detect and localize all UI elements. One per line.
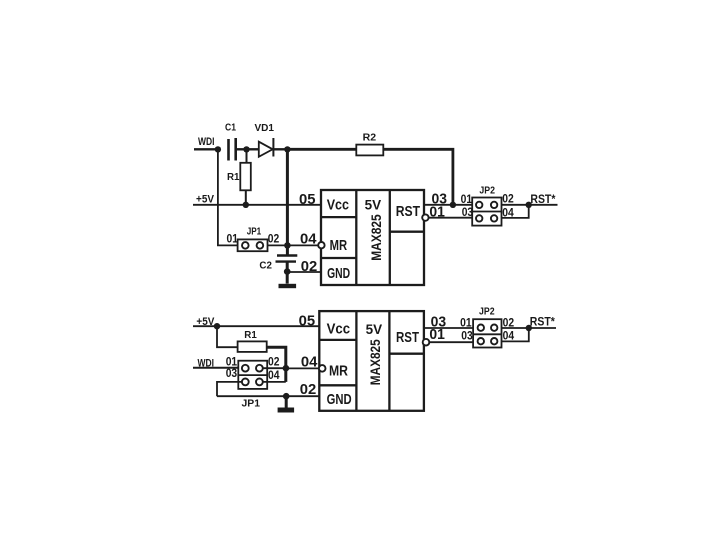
pin MR circle (lower IC) bbox=[319, 365, 326, 372]
junction C2 bottom / GND node bbox=[284, 268, 291, 275]
svg-text:C2: C2 bbox=[259, 261, 272, 272]
diode VD1 bbox=[259, 142, 273, 157]
svg-text:01: 01 bbox=[460, 316, 472, 330]
pin 2 of JP2 (lower) bbox=[491, 325, 497, 331]
junction VD1 cathode / MR branch bbox=[284, 146, 290, 152]
svg-text:Vcc: Vcc bbox=[327, 321, 351, 338]
svg-text:C1: C1 bbox=[225, 123, 236, 134]
pin 2 of JP1 (upper) bbox=[257, 242, 264, 249]
wire JP2 pin2 to RST* output (lower) bbox=[502, 327, 557, 329]
svg-text:RST: RST bbox=[396, 329, 419, 346]
junction GND node (lower) bbox=[283, 393, 290, 400]
junction R2 branch on 03 rail bbox=[450, 202, 456, 208]
connector JP1 (upper, 2-pin header) bbox=[238, 239, 268, 251]
wire JP1 pin3 to ground rail (lower) bbox=[217, 382, 242, 396]
wire MR node to MR pin bbox=[287, 244, 318, 246]
pin 4 of JP2 (lower) bbox=[491, 338, 497, 344]
op-amp U2 MAX825 (lower IC body) bbox=[319, 311, 424, 411]
wire R1 right lead down to MR node (lower) bbox=[267, 347, 286, 382]
svg-text:GND: GND bbox=[327, 265, 350, 282]
svg-text:MR: MR bbox=[329, 362, 348, 379]
capacitor C2 bbox=[286, 245, 289, 255]
svg-text:MAX825: MAX825 bbox=[369, 214, 384, 261]
svg-text:JP1: JP1 bbox=[247, 226, 262, 237]
svg-text:05: 05 bbox=[299, 313, 316, 329]
svg-text:R1: R1 bbox=[244, 330, 257, 341]
junction R1 bottom on +5V rail bbox=[243, 202, 249, 208]
svg-text:04: 04 bbox=[300, 231, 317, 247]
wire R2 to right corner down to RST 03 rail bbox=[383, 149, 453, 205]
pin 4 of JP2 (upper) bbox=[491, 215, 497, 221]
wire MR node to MR pin (lower) bbox=[286, 367, 319, 369]
svg-text:MR: MR bbox=[330, 237, 348, 254]
capacitor C1 bbox=[227, 139, 230, 161]
resistor R1 (upper, vertical) bbox=[246, 149, 248, 163]
wire JP2 pin4 up to RST* rail (upper) bbox=[502, 205, 529, 218]
svg-text:MAX825: MAX825 bbox=[368, 339, 383, 385]
connector JP2 (lower, 4-pin header) bbox=[473, 319, 501, 347]
wire RST pin to JP2 pin3 (lower) bbox=[429, 341, 473, 343]
wire RST 03 rail from IC to JP2 (lower) bbox=[424, 327, 473, 329]
pin RST circle (lower IC) bbox=[423, 339, 430, 346]
svg-text:05: 05 bbox=[299, 192, 316, 208]
wire JP1 pin2 to MR node (lower) bbox=[263, 367, 286, 369]
svg-text:Vcc: Vcc bbox=[327, 196, 349, 213]
svg-text:01: 01 bbox=[461, 192, 473, 206]
svg-text:02: 02 bbox=[502, 192, 514, 206]
svg-text:5V: 5V bbox=[365, 197, 382, 213]
svg-text:04: 04 bbox=[268, 368, 280, 382]
pin 3 of JP1 (lower) bbox=[242, 379, 249, 386]
junction RST* output (upper) bbox=[526, 202, 532, 208]
wire RST 03 rail from IC to JP2 (upper) bbox=[424, 204, 472, 206]
pin 2 of JP2 (upper) bbox=[491, 202, 497, 208]
svg-text:02: 02 bbox=[268, 232, 280, 246]
svg-text:03: 03 bbox=[226, 366, 238, 380]
pin 3 of JP2 (upper) bbox=[476, 215, 482, 221]
connector JP2 (upper, 4-pin header) bbox=[472, 198, 501, 226]
pin 1 of JP2 (upper) bbox=[476, 202, 482, 208]
wire JP2 pin4 up to RST* rail (lower) bbox=[502, 328, 529, 341]
svg-text:GND: GND bbox=[327, 391, 352, 408]
junction MR node (lower) bbox=[283, 365, 290, 372]
pin 1 of JP1 (lower) bbox=[242, 365, 249, 372]
svg-text:WDI: WDI bbox=[198, 136, 215, 148]
connector JP1 (lower, 4-pin header) bbox=[238, 361, 267, 389]
svg-text:JP2: JP2 bbox=[479, 306, 495, 317]
wire WDI input stub bbox=[194, 148, 218, 150]
wire ground rail to GND pin (lower) bbox=[217, 395, 319, 397]
op-amp U1 MAX825 (upper IC body) bbox=[321, 190, 424, 285]
wire VD1 cathode to MR-branch junction bbox=[273, 148, 287, 150]
junction C1 / R1 / VD1 node bbox=[243, 146, 249, 152]
wire JP2 pin2 to RST* junction (upper) bbox=[502, 204, 558, 206]
pin 1 of JP1 (upper) bbox=[242, 242, 249, 249]
junction MR node bbox=[284, 242, 291, 249]
wire vertical VD1 junction down to MR node bbox=[286, 149, 289, 245]
svg-text:R2: R2 bbox=[363, 132, 377, 143]
svg-text:RST*: RST* bbox=[530, 315, 555, 329]
wire GND node to GND pin bbox=[287, 271, 321, 273]
svg-text:01: 01 bbox=[227, 232, 239, 246]
wire +5V rail to Vcc pin (upper) bbox=[193, 204, 321, 206]
resistor R2 (horizontal) bbox=[356, 145, 383, 156]
wire junction to VD1 anode bbox=[247, 148, 260, 150]
svg-text:02: 02 bbox=[300, 382, 317, 398]
svg-text:RST*: RST* bbox=[530, 192, 555, 206]
junction +5V branch to R1 (lower) bbox=[214, 323, 220, 329]
ground (lower) bbox=[285, 396, 288, 407]
svg-text:JP2: JP2 bbox=[479, 185, 495, 196]
pin 4 of JP1 (lower) bbox=[256, 379, 263, 386]
wire +5V rail to Vcc pin (lower) bbox=[193, 325, 319, 327]
wire +5V junction down to R1 left lead (lower) bbox=[217, 326, 238, 347]
svg-text:R1: R1 bbox=[227, 172, 240, 183]
svg-text:RST: RST bbox=[396, 203, 420, 220]
wire RST pin to JP2 pin3 (upper) bbox=[429, 217, 473, 219]
svg-text:03: 03 bbox=[461, 329, 473, 343]
pin 2 of JP1 (lower) bbox=[256, 365, 263, 372]
wire JP1 pin2 to MR node junction bbox=[268, 244, 288, 246]
svg-text:5V: 5V bbox=[366, 321, 383, 337]
pin 1 of JP2 (lower) bbox=[478, 325, 484, 331]
wire C1 right plate to R1/VD1 junction bbox=[236, 148, 247, 150]
wire WDI input to JP1 pin1 (lower) bbox=[193, 367, 242, 369]
junction RST* output (lower) bbox=[526, 325, 532, 331]
pin MR circle (upper IC) bbox=[318, 242, 324, 248]
resistor R1 (lower, horizontal) bbox=[238, 341, 267, 352]
wire top rail junction to R2 bbox=[287, 148, 356, 151]
pin 3 of JP2 (lower) bbox=[478, 338, 484, 344]
ground (upper) bbox=[286, 272, 289, 284]
wire vertical from WDI junction down to JP1 pin 01 row bbox=[218, 149, 238, 245]
svg-text:02: 02 bbox=[268, 355, 280, 369]
svg-text:+5V: +5V bbox=[196, 194, 215, 206]
junction WDI / JP1 branch bbox=[215, 146, 221, 152]
pin RST circle (upper IC) bbox=[422, 214, 428, 220]
wire JP1 pin4 to MR branch vertical (lower) bbox=[263, 381, 286, 383]
svg-text:04: 04 bbox=[301, 355, 318, 371]
svg-text:JP1: JP1 bbox=[242, 398, 261, 409]
svg-text:VD1: VD1 bbox=[255, 123, 275, 134]
svg-text:01: 01 bbox=[429, 327, 445, 343]
